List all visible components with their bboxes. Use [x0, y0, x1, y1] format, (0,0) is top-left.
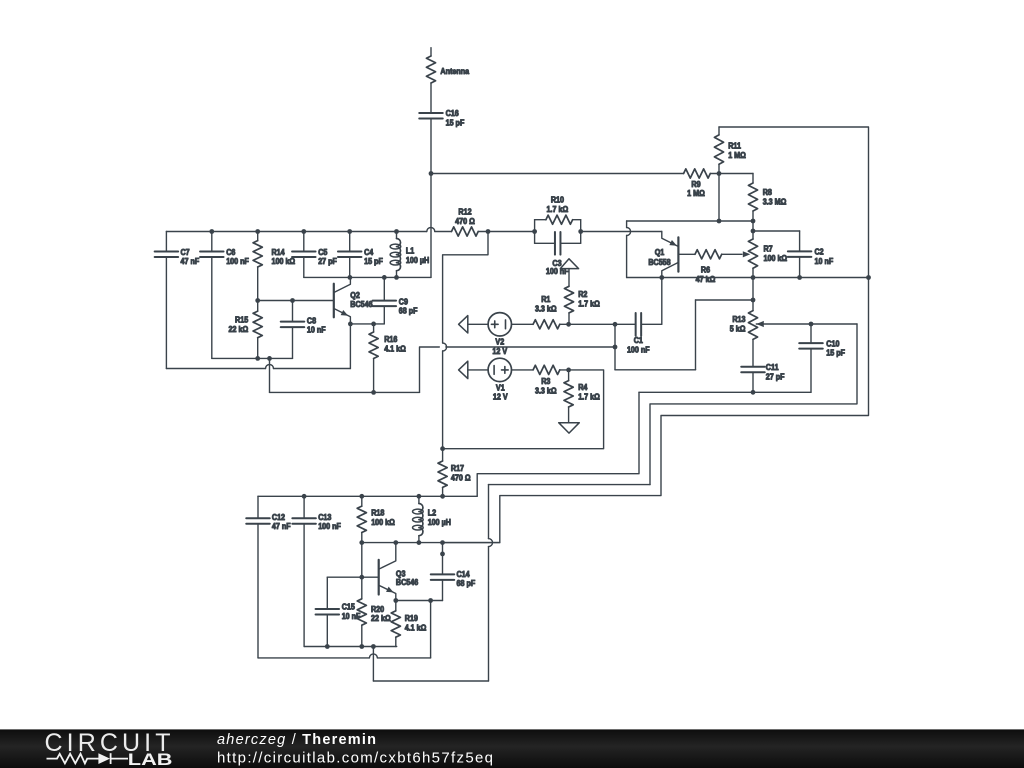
- capacitor C10: [799, 342, 823, 344]
- svg-text:4.1 kΩ: 4.1 kΩ: [405, 623, 427, 632]
- wire R7 bottom to R13: [752, 278, 754, 311]
- wire collector rail y=221: [627, 220, 753, 222]
- wire flag to V2: [468, 323, 488, 325]
- node R17 bottom: [440, 494, 445, 499]
- node L1 top: [394, 229, 399, 234]
- resistor R12: [452, 227, 479, 236]
- node staircase descender bottom: [371, 644, 376, 649]
- inductor L2: [418, 496, 420, 503]
- node R8 bottom: [751, 219, 756, 224]
- wire R7 bottom lead: [752, 268, 754, 277]
- svg-text:Antenna: Antenna: [440, 67, 469, 76]
- svg-text:R1: R1: [541, 295, 550, 304]
- node antenna-rail junction: [429, 171, 434, 176]
- resistor R8: [748, 183, 757, 211]
- node R14/R15 junction: [255, 298, 260, 303]
- node R18 bottom: [359, 540, 364, 545]
- svg-text:C10: C10: [826, 339, 839, 348]
- wire mid rail y=277.4: [304, 276, 431, 278]
- node C1 left junction: [613, 322, 618, 327]
- wire flag stem to R2: [568, 269, 570, 287]
- svg-text:BC546: BC546: [396, 578, 418, 587]
- resistor R19: [395, 601, 397, 611]
- wire V1 to R3: [512, 369, 534, 371]
- wire R1 to junction: [560, 323, 569, 325]
- capacitor C8: [292, 301, 294, 322]
- node C15 bottom: [325, 644, 330, 649]
- capacitor C9: [383, 277, 385, 300]
- svg-text:C12: C12: [272, 513, 285, 522]
- node C12 riser: [428, 598, 433, 603]
- wire riser x=639 to block2 rail: [477, 392, 639, 496]
- wire C16 down to main vertical: [430, 119, 432, 278]
- node y347 junction: [613, 345, 618, 350]
- capacitor C12: [257, 496, 259, 518]
- svg-text:47 nF: 47 nF: [272, 522, 291, 531]
- wire junction to C1: [569, 323, 636, 325]
- wire R8 bottom lead: [752, 211, 754, 221]
- wire base rail y=577.2: [327, 576, 378, 578]
- svg-text:R2: R2: [578, 290, 587, 299]
- resistor R2: [564, 286, 573, 313]
- node Q3 emitter: [393, 598, 398, 603]
- wire C2 top branch: [753, 230, 800, 232]
- capacitor C1: [635, 313, 637, 336]
- resistor R20: [361, 577, 363, 599]
- svg-text:R9: R9: [691, 180, 700, 189]
- svg-text:1.7 kΩ: 1.7 kΩ: [578, 392, 600, 401]
- node Q3 base junction: [359, 575, 364, 580]
- wire C2 bottom lead: [799, 257, 801, 278]
- svg-text:27 pF: 27 pF: [766, 372, 785, 381]
- svg-text:C13: C13: [318, 513, 331, 522]
- svg-text:68 pF: 68 pF: [457, 579, 476, 588]
- wire right edge down to staircase: [443, 278, 869, 543]
- svg-text:100 µH: 100 µH: [428, 518, 451, 527]
- node Q1 collector junction: [659, 275, 664, 280]
- svg-text:C9: C9: [399, 297, 408, 306]
- svg-text:15 pF: 15 pF: [826, 348, 845, 357]
- wire emitter net down-left to C7 (hop at 269.5): [349, 324, 351, 369]
- capacitor C6: [211, 232, 213, 252]
- node R15 bottom: [255, 356, 260, 361]
- wire emitter rail y=323.9: [350, 323, 384, 325]
- svg-text:R18: R18: [371, 508, 384, 517]
- node L2 top: [417, 494, 422, 499]
- node C10 top: [809, 322, 814, 327]
- svg-text:R10: R10: [551, 195, 564, 204]
- svg-text:C16: C16: [446, 109, 459, 118]
- wire junction to R8: [719, 173, 753, 175]
- svg-text:R4: R4: [578, 383, 588, 392]
- node R17 top: [440, 446, 445, 451]
- svg-text:C11: C11: [766, 363, 779, 372]
- net flag V2 arrow: [459, 316, 468, 333]
- svg-text:3.3 kΩ: 3.3 kΩ: [535, 386, 557, 395]
- svg-text:R12: R12: [458, 207, 471, 216]
- wire R13 to C11: [752, 339, 754, 366]
- node descender top: [267, 356, 272, 361]
- supply flag above R2: [560, 259, 578, 269]
- svg-text:R19: R19: [405, 614, 418, 623]
- transistor Q2 BC546: [333, 284, 335, 318]
- svg-text:R16: R16: [384, 335, 397, 344]
- node C4 top: [347, 229, 352, 234]
- wire C1 right lead: [641, 323, 662, 325]
- svg-text:C14: C14: [457, 570, 471, 579]
- node R10 block left: [532, 229, 537, 234]
- svg-text:V1: V1: [496, 383, 505, 392]
- wire y=392.4 line to riser x=419.5: [270, 391, 420, 393]
- wire staircase drop x=488.5 with hop: [488, 485, 490, 539]
- wire R6 to R7 wiper arrow: [722, 253, 742, 255]
- wire flag to V1: [468, 369, 488, 371]
- svg-text:12 V: 12 V: [493, 392, 508, 401]
- wire R12 to R10 block: [478, 231, 534, 233]
- potentiometer R7: [748, 239, 757, 268]
- node R9-R11 junction: [717, 171, 722, 176]
- resistor R11: [714, 135, 723, 164]
- resistor R14: [257, 232, 259, 241]
- svg-text:470 Ω: 470 Ω: [455, 217, 475, 226]
- svg-text:47 kΩ: 47 kΩ: [696, 275, 716, 284]
- node R1/R2: [566, 322, 571, 327]
- transistor Q1 BC558: [677, 237, 679, 271]
- capacitor C15: [316, 608, 340, 610]
- svg-text:R8: R8: [763, 188, 772, 197]
- svg-text:100 kΩ: 100 kΩ: [272, 257, 296, 266]
- capacitor C5: [303, 232, 305, 252]
- svg-text:47 nF: 47 nF: [181, 257, 200, 266]
- svg-text:L1: L1: [406, 246, 414, 255]
- svg-text:R6: R6: [701, 265, 710, 274]
- node C8 top: [290, 298, 295, 303]
- potentiometer R13: [748, 311, 757, 340]
- transistor Q3 BC546: [378, 560, 380, 595]
- node C4/Q2 collector: [348, 275, 353, 280]
- wire bottom rail y=277.5 right section: [627, 277, 869, 279]
- node R16 bottom: [371, 390, 376, 395]
- node right edge bottom rail: [866, 275, 871, 280]
- resistor R6: [695, 250, 722, 259]
- wire R13 top branch: [696, 299, 754, 301]
- svg-text:LAB: LAB: [128, 751, 173, 768]
- wire C10 column: [810, 324, 812, 343]
- node R12-R17 junction: [486, 229, 491, 234]
- capacitor C14: [442, 543, 444, 575]
- wire V2 to R1: [512, 323, 534, 325]
- wire R8 top lead: [752, 174, 754, 184]
- svg-text:C8: C8: [307, 316, 316, 325]
- wire Q1 base to R6: [678, 253, 695, 255]
- resistor R18: [361, 496, 363, 506]
- source V2: [488, 313, 511, 336]
- wire R4 to ground: [568, 407, 570, 423]
- footer bar: [0, 729, 1024, 768]
- svg-text:C2: C2: [815, 247, 824, 256]
- wire block2 top rail y=496.3: [258, 495, 477, 497]
- svg-text:C7: C7: [181, 248, 190, 257]
- svg-text:3.3 kΩ: 3.3 kΩ: [535, 304, 557, 313]
- svg-text:C5: C5: [318, 248, 327, 257]
- source V1: [488, 358, 511, 381]
- svg-text:http://circuitlab.com/cxbt6h57: http://circuitlab.com/cxbt6h57fz5eq: [217, 749, 493, 766]
- wire left drop to Q1 net (with hop): [626, 221, 628, 228]
- wire top rail y=231.5 with hop at 431: [166, 231, 426, 233]
- svg-text:4.1 kΩ: 4.1 kΩ: [384, 344, 406, 353]
- wire R11 bottom lead: [718, 164, 720, 173]
- node C6 top: [209, 229, 214, 234]
- wire top rail y=173.5 to R9: [431, 173, 684, 175]
- svg-text:BC558: BC558: [648, 258, 670, 267]
- resistor R1: [533, 320, 560, 329]
- svg-text:100 nF: 100 nF: [627, 345, 650, 354]
- wire R9 junction down to collector rail: [718, 174, 720, 222]
- wire R13 wiper line: [756, 321, 764, 327]
- capacitor C13: [303, 496, 305, 518]
- node C9 top: [382, 275, 387, 280]
- capacitor C3: [554, 232, 556, 255]
- svg-text:C1: C1: [634, 336, 643, 345]
- svg-text:470 Ω: 470 Ω: [451, 473, 471, 482]
- hop on x=442.6 over y=347: [443, 343, 447, 351]
- resistor R16: [373, 324, 375, 332]
- resistor Antenna: [426, 56, 435, 83]
- wire R3 to junction: [560, 369, 569, 371]
- svg-text:3.3 MΩ: 3.3 MΩ: [763, 197, 787, 206]
- svg-text:22 kΩ: 22 kΩ: [371, 614, 391, 623]
- capacitor C16: [419, 112, 443, 114]
- node L2 bottom: [417, 540, 422, 545]
- wire y=347 line (hop at x=442.6 on vertical): [446, 346, 615, 348]
- wire y=392.3 line: [639, 391, 811, 393]
- wire block2 mid rail y=542.6: [362, 542, 500, 544]
- wire R11 top lead: [718, 127, 720, 135]
- svg-text:100 kΩ: 100 kΩ: [371, 518, 395, 527]
- svg-text:15 pF: 15 pF: [446, 118, 465, 127]
- node C13 top: [302, 494, 307, 499]
- wire descender x=269.5: [269, 358, 271, 392]
- wire collector down to C1 level: [661, 278, 663, 325]
- resistor R17: [442, 449, 444, 461]
- svg-text:R17: R17: [451, 464, 464, 473]
- svg-text:R13: R13: [732, 315, 745, 324]
- svg-text:1.7 kΩ: 1.7 kΩ: [547, 205, 569, 214]
- wire junction down to x=442.6 column: [443, 232, 488, 344]
- wire C15 column: [326, 577, 328, 609]
- svg-text:10 nF: 10 nF: [815, 257, 834, 266]
- node L1 bottom: [394, 275, 399, 280]
- wire antenna stub: [430, 48, 432, 56]
- wire R8 to R7 segment: [752, 221, 754, 239]
- svg-text:aherczeg / Theremin: aherczeg / Theremin: [217, 732, 376, 748]
- wire R9 right: [710, 173, 719, 175]
- svg-text:R7: R7: [764, 244, 773, 253]
- node R10 block right: [578, 229, 583, 234]
- svg-text:15 pF: 15 pF: [364, 257, 383, 266]
- resistor R15: [257, 301, 259, 312]
- wire emitter rail y=600.5: [396, 600, 443, 602]
- svg-text:C15: C15: [342, 602, 355, 611]
- node C2 bottom: [797, 275, 802, 280]
- wire base rail y=300.5: [258, 300, 334, 302]
- node Q3 collector: [393, 540, 398, 545]
- wire top loop: R11 top to right edge and down: [719, 127, 869, 278]
- svg-text:100 µH: 100 µH: [406, 256, 429, 265]
- svg-text:1 MΩ: 1 MΩ: [687, 189, 705, 198]
- resistor R3: [533, 365, 560, 374]
- wire wiper staircase down-left: [650, 324, 857, 485]
- svg-text:R11: R11: [728, 141, 741, 150]
- svg-text:C6: C6: [226, 248, 235, 257]
- parallel block R10/C3 frame: [534, 220, 536, 244]
- capacitor C2: [788, 250, 812, 252]
- resistor R9: [684, 169, 711, 178]
- svg-text:R15: R15: [235, 315, 248, 324]
- inductor L1: [396, 232, 398, 239]
- svg-text:R14: R14: [272, 248, 286, 257]
- svg-text:5 kΩ: 5 kΩ: [730, 324, 746, 333]
- node extra dot on C14 column: [440, 552, 445, 557]
- node R18 top: [359, 494, 364, 499]
- resistor R4: [568, 370, 570, 381]
- wire junction right and down to R17 line: [443, 370, 604, 449]
- wire antenna to C16: [430, 83, 432, 113]
- wire R10 block to Q1 emitter: [581, 231, 662, 233]
- wire bottom rail y=358.4: [212, 357, 293, 359]
- node R7 bottom: [751, 275, 756, 280]
- svg-text:R20: R20: [371, 605, 384, 614]
- svg-text:R3: R3: [541, 377, 550, 386]
- capacitor C4: [349, 232, 351, 252]
- svg-text:C4: C4: [364, 248, 374, 257]
- wire C12 net bottom (hop at 373.4): [258, 657, 369, 659]
- ground: [559, 423, 580, 433]
- svg-text:V2: V2: [495, 337, 504, 346]
- svg-text:12 V: 12 V: [492, 347, 507, 356]
- node R16 top: [371, 322, 376, 327]
- svg-text:27 pF: 27 pF: [318, 257, 337, 266]
- node R7 top / C2 branch: [751, 229, 756, 234]
- net flag V1 arrow: [459, 361, 468, 378]
- capacitor C11: [741, 366, 765, 368]
- svg-text:BC546: BC546: [350, 300, 372, 309]
- svg-text:68 pF: 68 pF: [399, 306, 418, 315]
- node C11 bottom: [751, 390, 756, 395]
- wire C13 net bottom rail: [304, 646, 397, 648]
- node R14 top: [255, 229, 260, 234]
- svg-text:10 nF: 10 nF: [307, 325, 326, 334]
- node C5 top: [301, 229, 306, 234]
- svg-text:Q1: Q1: [655, 248, 665, 257]
- node Q2 emitter: [348, 322, 353, 327]
- node at collector rail: [717, 219, 722, 224]
- svg-text:22 kΩ: 22 kΩ: [228, 325, 248, 334]
- svg-text:L2: L2: [428, 508, 436, 517]
- capacitor C7: [165, 232, 167, 252]
- resistor R10: [546, 215, 573, 224]
- wire staircase bottom to block2: [373, 680, 488, 682]
- svg-text:1.7 kΩ: 1.7 kΩ: [578, 299, 600, 308]
- svg-text:100 nF: 100 nF: [226, 257, 249, 266]
- wire R18 to base rail: [361, 543, 363, 578]
- node R13 top: [751, 298, 756, 303]
- svg-text:1 MΩ: 1 MΩ: [728, 151, 746, 160]
- node R3/R4: [566, 368, 571, 373]
- node R20 bottom: [359, 644, 364, 649]
- svg-text:100 nF: 100 nF: [318, 522, 341, 531]
- svg-text:100 kΩ: 100 kΩ: [764, 254, 788, 263]
- node C14 column top: [440, 540, 445, 545]
